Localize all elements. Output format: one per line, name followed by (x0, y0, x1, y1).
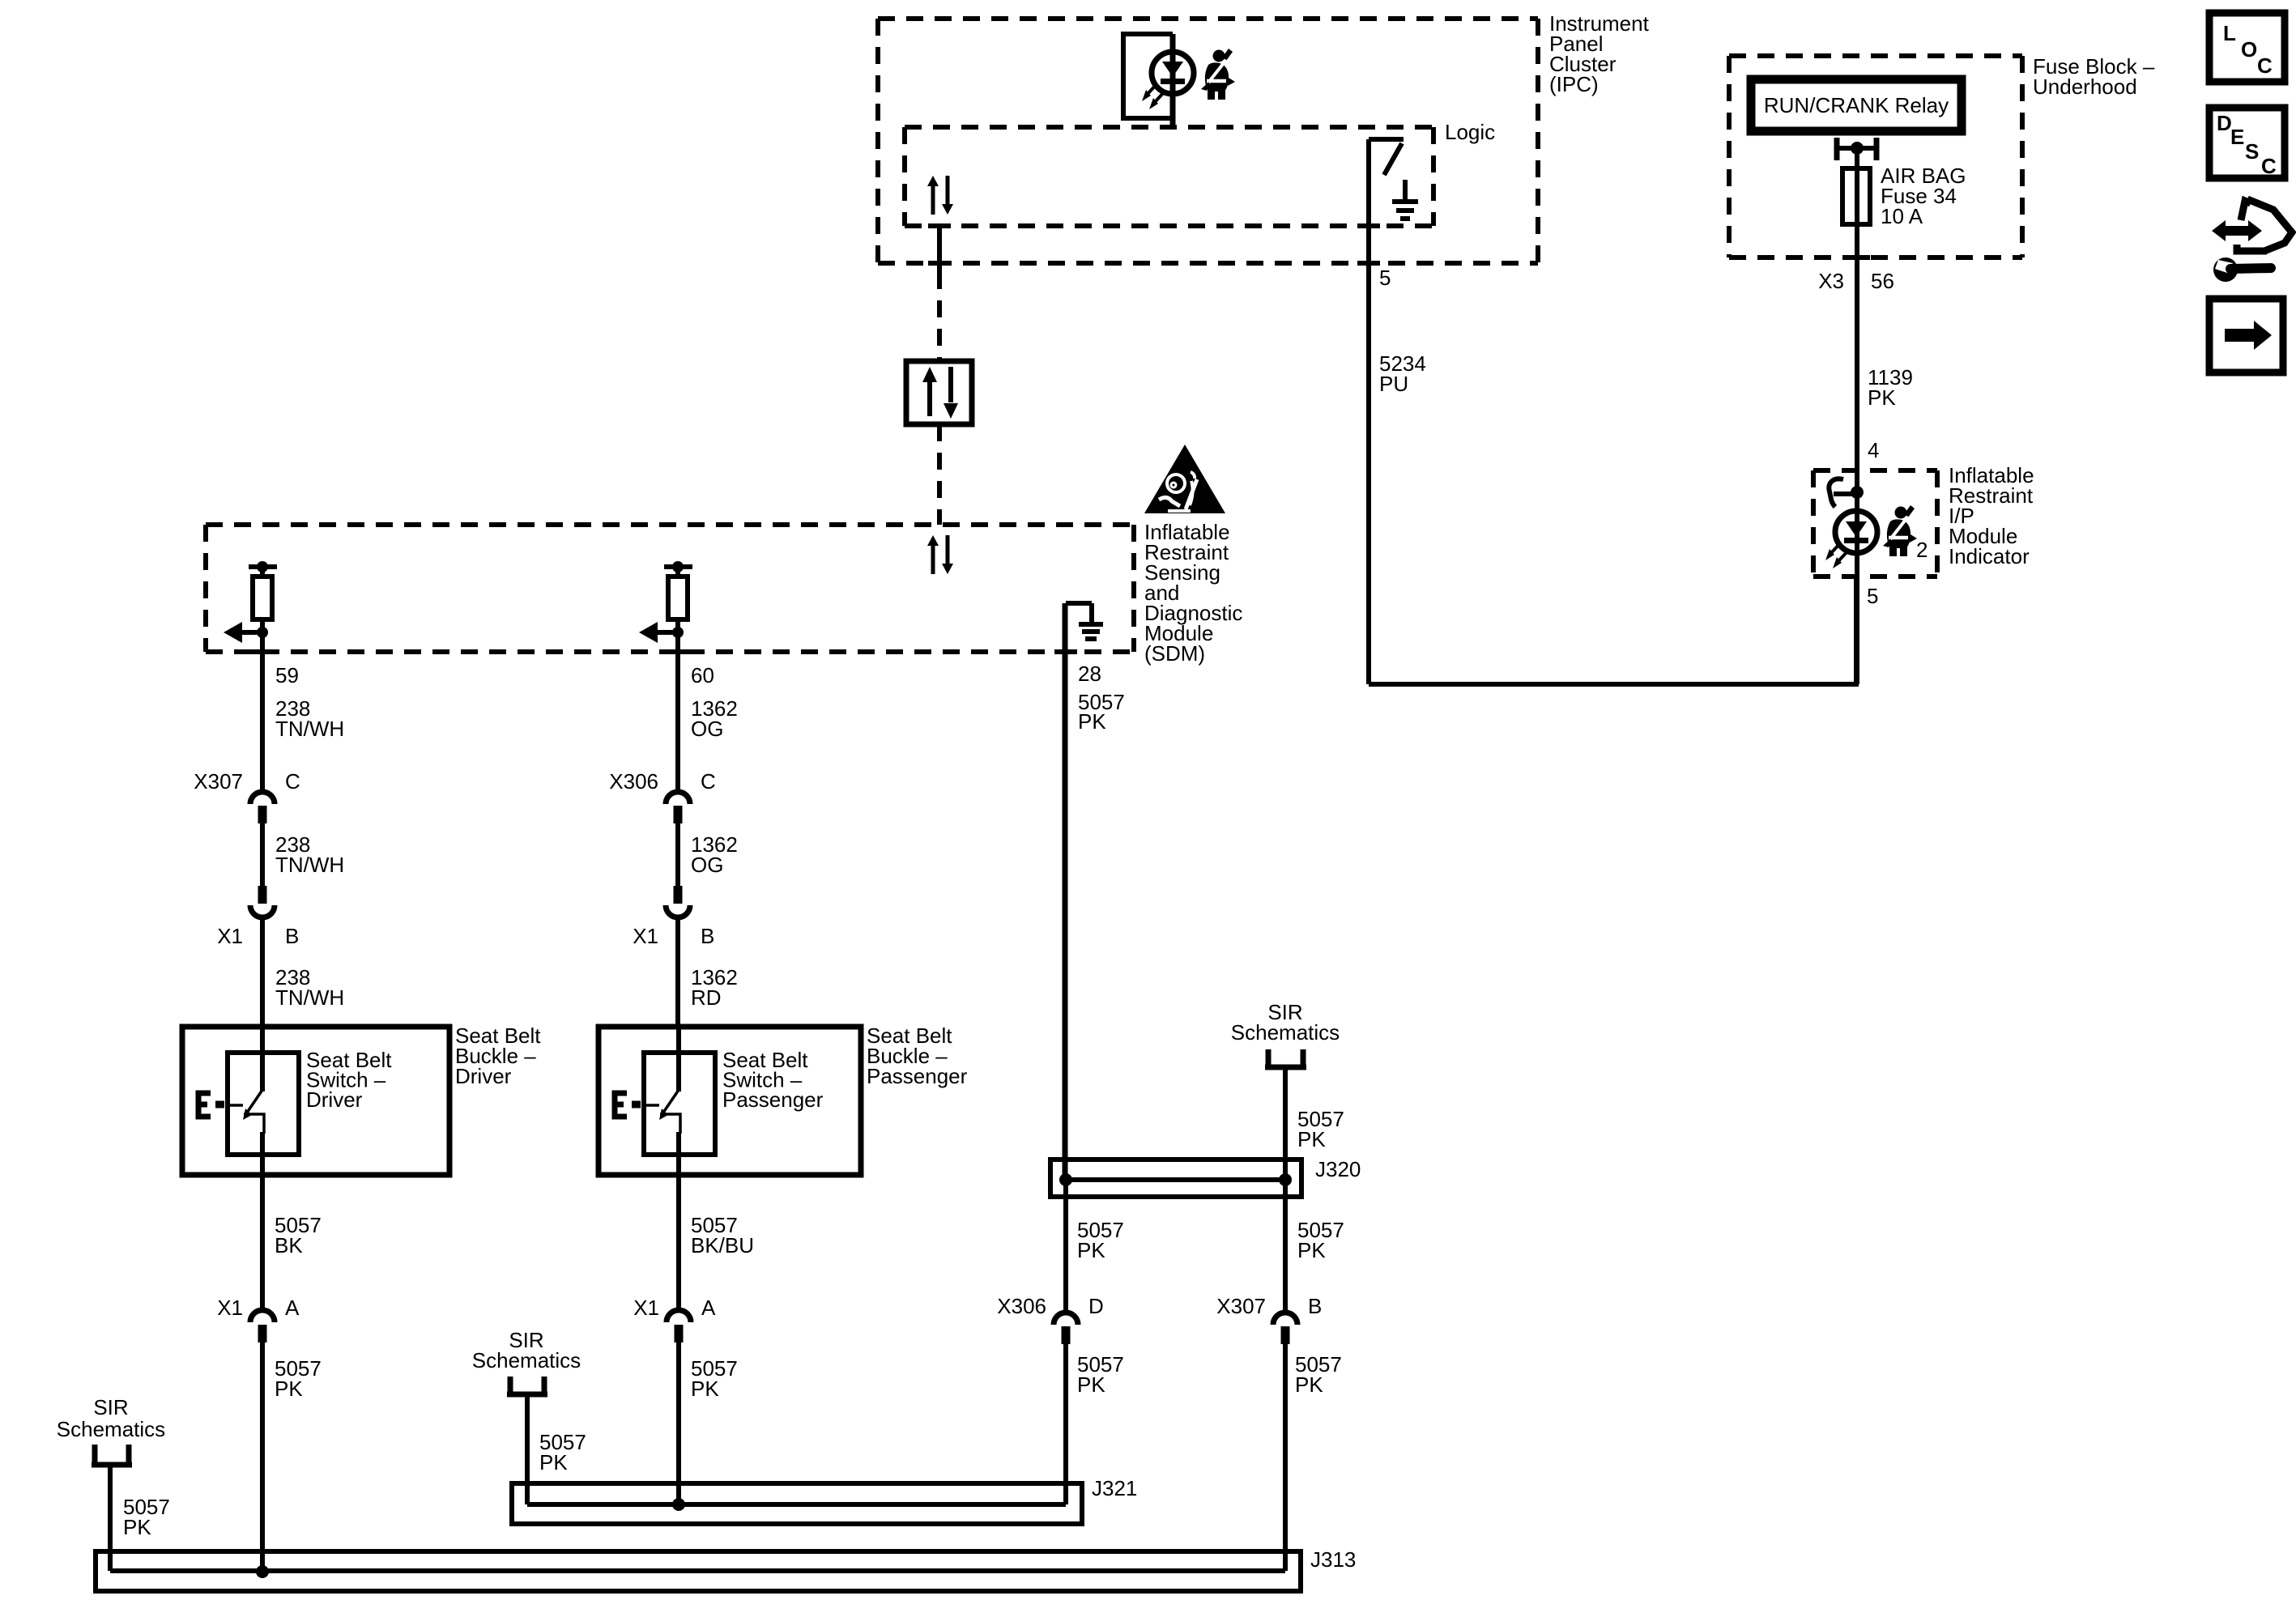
svg-text:C: C (2257, 53, 2273, 78)
logic box tick (1357, 223, 1380, 228)
LOC icon box (2209, 13, 2285, 82)
RUN/CRANK Relay box (1751, 79, 1962, 131)
connector X306 D labels (997, 1294, 1104, 1318)
indicator LED light arrows (1825, 543, 1848, 568)
wire 5057 PK X306 D upper (1063, 1180, 1068, 1312)
svg-text:X1: X1 (217, 1296, 243, 1320)
forward arrow icon box (2209, 299, 2283, 372)
svg-text:5: 5 (1867, 584, 1878, 608)
svg-text:B: B (1308, 1294, 1322, 1318)
connector X1 A driver (250, 1310, 275, 1343)
E- symbol passenger (615, 1093, 641, 1117)
connector X307 C labels (194, 769, 300, 794)
wire 5057 PK driver lower (260, 1343, 265, 1571)
Fuse Block Underhood dashed box (1729, 56, 2022, 257)
svg-text:D: D (2217, 111, 2232, 135)
svg-text:J313: J313 (1310, 1547, 1356, 1572)
wire 1362 RD pass lower (675, 917, 680, 1027)
SDM dashed box (206, 525, 1134, 652)
wire fuse down to indicator (1855, 224, 1859, 684)
connector X1 B driver (250, 886, 275, 917)
svg-text:59: 59 (275, 663, 299, 687)
svg-text:60: 60 (691, 663, 714, 687)
wire 238 TN/WH driver mid (260, 823, 265, 886)
wire IPC pin5 down (1366, 139, 1371, 684)
wire 5057 BK driver (260, 1175, 265, 1310)
svg-text:X3: X3 (1818, 269, 1844, 293)
Seat Belt Switch Passenger box (644, 1053, 715, 1155)
wire 5057 PK from SIR to J320 (1283, 1067, 1288, 1180)
switch driver blade (243, 1090, 262, 1120)
svg-text:C: C (2261, 154, 2277, 178)
svg-text:B: B (701, 924, 714, 948)
Seat Belt Switch Driver box (228, 1053, 299, 1155)
wire SIR left to J313 (108, 1465, 113, 1571)
switch driver fixed contact (230, 1104, 243, 1107)
svg-text:Logic: Logic (1445, 120, 1495, 144)
SDM serial data arrows (927, 535, 953, 574)
IPC serial data arrows (927, 176, 953, 215)
IPC indicator gate rectangle (1123, 34, 1173, 118)
indicator LED circle (1835, 511, 1877, 553)
svg-text:Fuse Block –Underhood: Fuse Block –Underhood (2033, 54, 2155, 99)
fuse 34 body (1842, 168, 1870, 224)
LOC letters (2223, 21, 2273, 78)
svg-text:28: 28 (1078, 662, 1101, 686)
svg-text:X1: X1 (633, 1296, 659, 1320)
svg-text:B: B (285, 924, 299, 948)
switch pass fixed contact (646, 1104, 659, 1107)
wire relay to fuse (1855, 148, 1859, 168)
passenger sense junction dot (672, 627, 684, 638)
SIR Schematics bracket left (92, 1445, 132, 1465)
switch pass wire in (676, 1027, 681, 1091)
Seat Belt Buckle Passenger box (598, 1027, 861, 1175)
indicator LED cathode bar (1844, 538, 1868, 543)
switch driver wire in (260, 1027, 265, 1091)
wire resistor to junction (260, 619, 265, 656)
connector X1 A driver labels (217, 1296, 300, 1320)
IPC indicator LED circle (1152, 52, 1194, 94)
svg-text:X307: X307 (194, 769, 243, 794)
svg-text:4: 4 (1868, 438, 1879, 462)
svg-text:E: E (2230, 125, 2244, 149)
svg-text:X306: X306 (609, 769, 658, 794)
wire 5057 PK X307 B lower (1283, 1344, 1288, 1571)
fuse wire through (1855, 168, 1859, 224)
Seat Belt Buckle Driver box (182, 1027, 449, 1175)
serial data arrows box (906, 361, 972, 424)
wire 5057 PK X307 B mid (1283, 1180, 1288, 1312)
junction block J321 (512, 1483, 1082, 1524)
svg-text:C: C (285, 769, 300, 794)
IPC seat belt telltale icon (1201, 49, 1235, 100)
connector X1 B pass (666, 886, 690, 917)
connector X307 B (1273, 1313, 1297, 1344)
svg-text:A: A (285, 1296, 300, 1320)
J313 internal wire (110, 1568, 1285, 1573)
IPC LED light arrows (1142, 83, 1165, 109)
DESC letters (2217, 111, 2277, 178)
connector X306 D (1054, 1313, 1078, 1344)
IPC LED cathode bar (1161, 79, 1185, 84)
DESC icon box (2209, 108, 2285, 178)
E- symbol driver (198, 1093, 224, 1117)
wire SIR middle to J321 (525, 1394, 530, 1504)
IPC box tick (1357, 261, 1380, 266)
svg-text:C: C (701, 769, 716, 794)
resistor R-pass body (668, 577, 688, 619)
serial data dashed line lower (937, 424, 942, 525)
forward arrow (2225, 321, 2272, 350)
wire 5057 PK pass lower (676, 1343, 681, 1504)
SIR Schematics bracket middle (507, 1377, 547, 1394)
SDM boundary tick ground (1054, 649, 1077, 654)
svg-text:56: 56 (1871, 269, 1894, 293)
svg-text:5: 5 (1379, 266, 1391, 290)
wire bottom run to indicator (1369, 577, 1856, 684)
svg-text:O: O (2241, 37, 2257, 62)
J320 internal wire (1066, 1177, 1285, 1182)
indicator wire through (1855, 470, 1859, 577)
J320 junction dot left (1059, 1173, 1072, 1186)
svg-text:X306: X306 (997, 1294, 1046, 1318)
wire 1362 OG pass upper (675, 652, 680, 792)
connector X306 C labels (609, 769, 716, 794)
resistor R-pass pullup tee (664, 561, 692, 577)
IPC logic switch (1369, 139, 1404, 175)
svg-text:D: D (1088, 1294, 1104, 1318)
serial data dashed line upper (937, 272, 942, 361)
SDM boundary tick passenger (667, 649, 689, 654)
relay output junction dot (1851, 142, 1864, 155)
svg-text:J320: J320 (1315, 1157, 1361, 1181)
switch driver step contact (244, 1114, 264, 1134)
wire 1362 OG pass mid (675, 823, 680, 886)
junction block J320 (1050, 1160, 1301, 1197)
svg-text:X1: X1 (633, 924, 658, 948)
svg-text:RUN/CRANK Relay: RUN/CRANK Relay (1764, 93, 1949, 117)
IPC LED diode triangle (1162, 62, 1183, 77)
connector X1 A pass (667, 1310, 691, 1343)
resistor R-driver body (253, 577, 272, 619)
IPC logic ground (1392, 180, 1418, 219)
indicator latch hook (1829, 479, 1857, 507)
IPC serial data stub wire (928, 226, 951, 272)
connector X1 A pass labels (633, 1296, 716, 1320)
relay output prongs (1837, 138, 1876, 160)
indicator seat belt icon (1883, 505, 1917, 556)
SIR warning triangle (1144, 445, 1225, 513)
J313 junction dot driver (256, 1565, 269, 1578)
junction dot passenger at J321 (672, 1498, 685, 1511)
connector X1 B driver labels (217, 924, 299, 948)
connector X307 B labels (1216, 1294, 1322, 1318)
svg-text:L: L (2223, 21, 2236, 45)
wire resistor to junction pass (675, 619, 680, 656)
J321 internal wire (527, 1502, 1066, 1507)
IPC Logic inner dashed box (905, 127, 1433, 226)
svg-text:J321: J321 (1092, 1476, 1137, 1500)
J320 junction dot right (1279, 1173, 1292, 1186)
resistor R-driver pullup tee (249, 561, 277, 577)
SDM boundary tick driver (251, 649, 274, 654)
SIR Schematics bracket top right (1265, 1049, 1306, 1067)
indicator junction dot (1851, 486, 1864, 499)
boxed serial data arrows (922, 367, 958, 419)
svg-text:X307: X307 (1216, 1294, 1266, 1318)
junction block J313 (96, 1551, 1301, 1591)
switch pass step contact (660, 1114, 680, 1134)
IPC indicator LED wire (1170, 34, 1176, 127)
Inflatable Restraint IP Module Indicator dashed box (1813, 470, 1937, 577)
svg-text:2: 2 (1916, 538, 1928, 562)
svg-text:S: S (2245, 139, 2259, 164)
connector X306 C (666, 792, 690, 823)
driver sense junction dot (257, 627, 268, 638)
wire 238 TN/WH driver lower (260, 917, 265, 1027)
hand with wrench icon (2212, 199, 2292, 282)
svg-text:A: A (701, 1296, 716, 1320)
connector X307 C (250, 792, 275, 823)
driver sense arrow (224, 622, 262, 643)
switch driver wire out (260, 1132, 265, 1175)
switch pass blade (659, 1090, 679, 1120)
indicator LED triangle (1846, 521, 1867, 537)
passenger sense arrow (639, 622, 678, 643)
wire SDM ground down (1063, 603, 1068, 1180)
wire 5057 BK/BU passenger (676, 1175, 681, 1310)
wire 238 TN/WH driver upper (260, 652, 265, 792)
SDM internal ground (1066, 603, 1103, 639)
connector X1 B pass labels (633, 924, 714, 948)
fuse block boundary tick (1844, 255, 1870, 260)
wire 5057 PK X306 D lower (1063, 1344, 1068, 1504)
svg-text:X1: X1 (217, 924, 243, 948)
IPC outer dashed box (878, 19, 1538, 263)
switch pass wire out (676, 1132, 681, 1175)
